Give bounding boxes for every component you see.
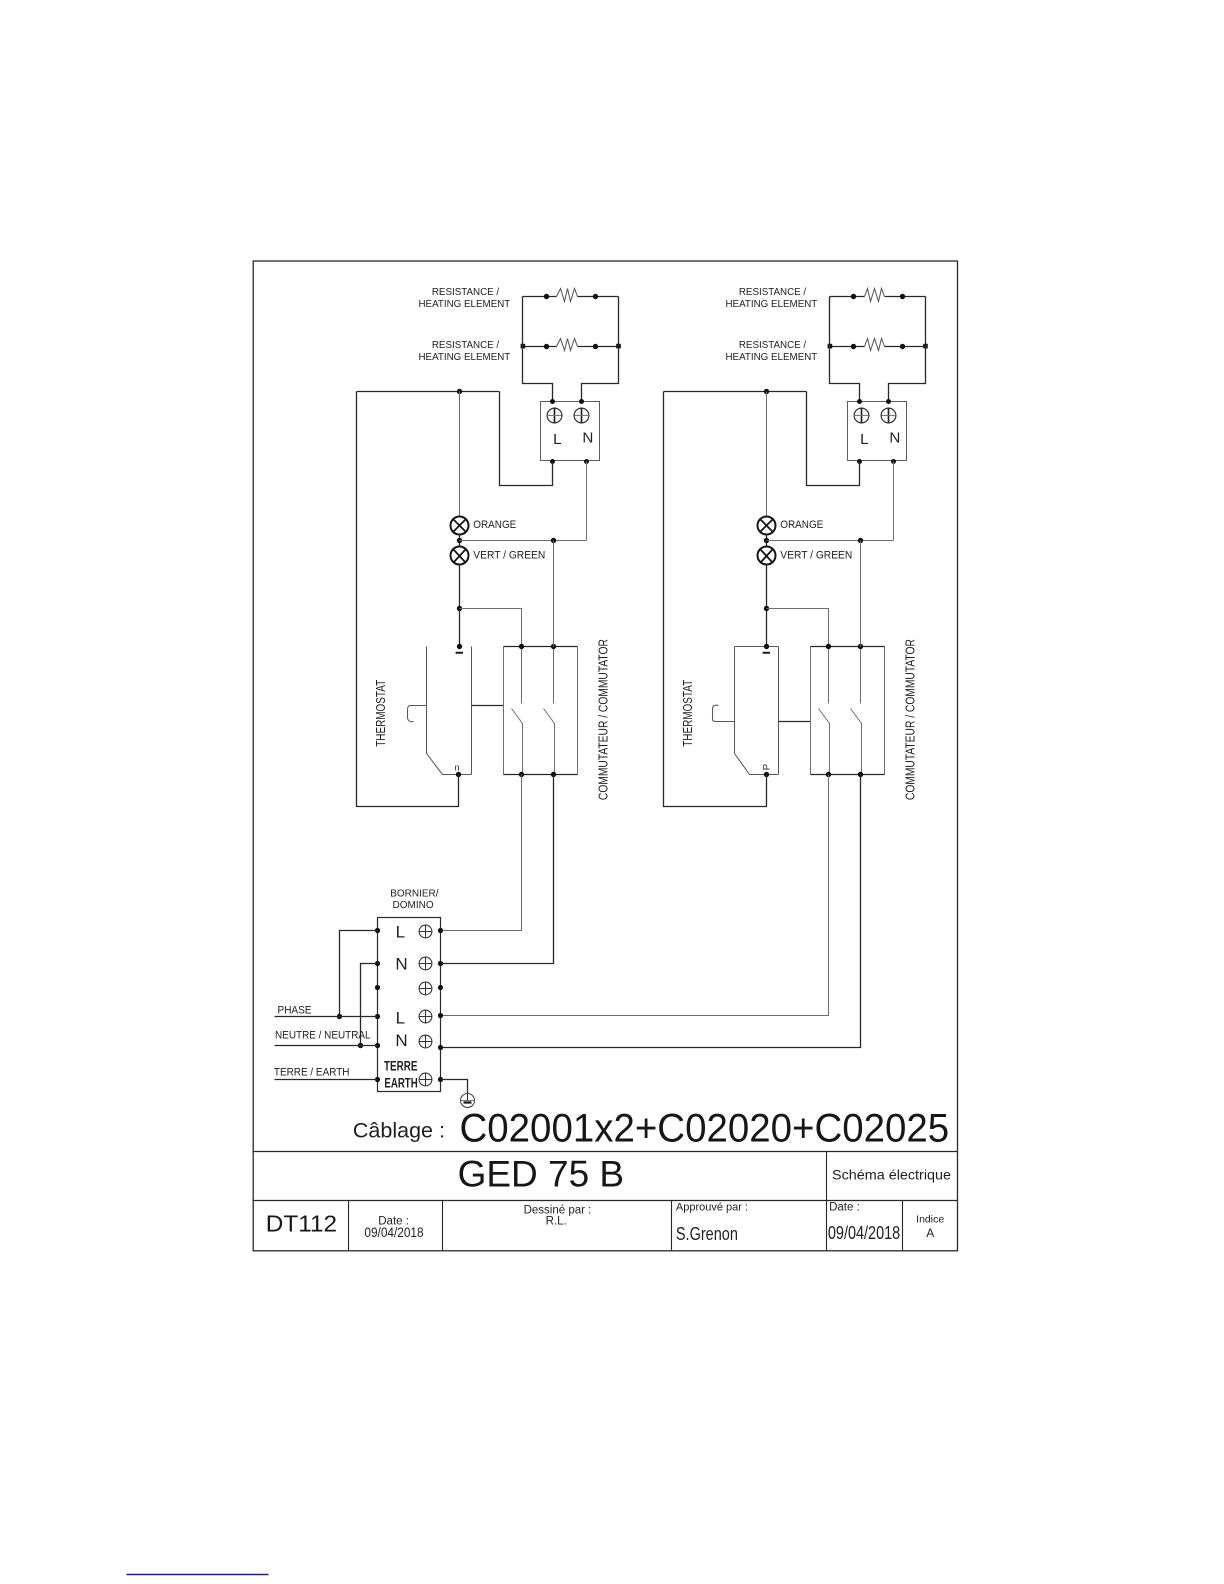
svg-text:PHASE: PHASE xyxy=(278,1005,312,1017)
node: S1 contact 1 top xyxy=(519,644,524,649)
svg-text:HEATING ELEMENT: HEATING ELEMENT xyxy=(725,299,817,310)
svg-text:S.Grenon: S.Grenon xyxy=(676,1224,738,1244)
label: RESISTANCE / HEATING ELEMENT (R1A) xyxy=(418,287,510,310)
node: X3 row 1 left xyxy=(375,928,380,933)
wire: phase rail to X3 row 1 xyxy=(340,931,378,1017)
terminal screw L of X2 xyxy=(854,408,869,423)
label: Date / 09/04/2018 (left) xyxy=(364,1215,423,1240)
wire: between lamps xyxy=(766,535,768,547)
label: RESISTANCE / HEATING ELEMENT (R2A) xyxy=(725,287,817,310)
wire: tap to commutator pole 1 xyxy=(767,609,829,647)
wire: phase rail to lamp H2A xyxy=(766,392,768,517)
footer rule (blue) xyxy=(127,1574,269,1576)
node: phase junction xyxy=(337,1014,342,1019)
wire: neutral rail to X3 row 2 xyxy=(361,964,378,1046)
terminal block X1 (L N) xyxy=(541,402,600,461)
lamp H2B (green indicator) xyxy=(758,547,776,565)
label: pin N (row 2) xyxy=(395,954,407,973)
wire: NEUTRE line xyxy=(275,1045,378,1047)
node: X3 row 2 right xyxy=(438,961,443,966)
label: Approuvé par / S.Grenon xyxy=(676,1201,748,1244)
node: loop left junction (square) xyxy=(521,344,526,349)
label: BORNIER / DOMINO (X3) xyxy=(390,888,439,911)
label: Câblage designation xyxy=(353,1107,949,1151)
wire: resistor parallel loop xyxy=(523,297,619,402)
node: neutral junction xyxy=(358,1043,363,1048)
switch contact 1 of S2 xyxy=(819,647,830,775)
node: commutator feed tap xyxy=(764,606,769,611)
svg-text:VERT / GREEN: VERT / GREEN xyxy=(473,550,545,562)
wire: resistor parallel loop xyxy=(830,297,926,402)
label: pin TERRE EARTH (row 6) xyxy=(384,1059,418,1091)
svg-text:VERT / GREEN: VERT / GREEN xyxy=(780,550,852,562)
wire: thermostat link to commutator xyxy=(779,721,811,723)
terminal screw N of X2 xyxy=(881,408,896,423)
label: pin P of B2 xyxy=(761,764,772,770)
wire: N feed from X2 down xyxy=(893,462,895,541)
wire: top phase rail xyxy=(357,391,500,393)
node: S1 contact 2 bottom xyxy=(551,772,556,777)
label: Date / 09/04/2018 (right) xyxy=(828,1201,900,1243)
terminal strip X3 (bornier/domino) xyxy=(378,918,441,1092)
node: loop right junction (square) xyxy=(616,344,621,349)
wire: S2 pole 2 feed from lamp junction xyxy=(860,541,862,647)
svg-text:HEATING ELEMENT: HEATING ELEMENT xyxy=(418,352,510,363)
node: X2 N bottom xyxy=(891,459,896,464)
node: commutator pole 2 tap xyxy=(551,538,556,543)
svg-text:L: L xyxy=(553,431,561,448)
svg-text:ORANGE: ORANGE xyxy=(780,519,823,531)
wire: L feed from X1 to phase rail xyxy=(500,392,553,486)
resistor R1B heating element xyxy=(523,339,619,351)
node: X3 row 5 left xyxy=(375,1043,380,1048)
svg-text:HEATING ELEMENT: HEATING ELEMENT xyxy=(725,352,817,363)
wire: top phase rail xyxy=(664,391,807,393)
switch contact 2 of S1 xyxy=(544,647,555,775)
node: R1B right lead xyxy=(593,344,598,349)
svg-text:L: L xyxy=(860,431,868,448)
label: GED 75 B xyxy=(458,1154,624,1195)
wire: X3 row 6 to earth xyxy=(441,1080,468,1094)
label: NEUTRE / NEUTRAL xyxy=(275,1029,371,1041)
node: X1 N bottom xyxy=(584,459,589,464)
svg-text:Câblage :: Câblage : xyxy=(353,1119,445,1143)
node: thermostat pin 1 xyxy=(764,644,769,649)
terminal screw L of X1 xyxy=(547,408,562,423)
svg-text:EARTH: EARTH xyxy=(384,1076,417,1091)
label: TERRE / EARTH xyxy=(274,1067,350,1079)
svg-text:DOMINO: DOMINO xyxy=(393,900,434,911)
earth (protective ground) symbol xyxy=(461,1094,475,1108)
node: X2 N top xyxy=(886,399,891,404)
node: R2B left lead xyxy=(851,344,856,349)
label: pin L of X2 xyxy=(860,431,868,448)
wire: between lamps xyxy=(459,535,461,547)
node: S1 contact 2 top xyxy=(551,644,556,649)
svg-text:TERRE / EARTH: TERRE / EARTH xyxy=(274,1067,350,1079)
wire: S1 contact 1 to domino L xyxy=(441,775,522,931)
node: thermostat pin 1 xyxy=(457,644,462,649)
node: R2A right lead xyxy=(900,294,905,299)
svg-text:TERRE: TERRE xyxy=(384,1059,417,1074)
wire: lamp H1B to thermostat xyxy=(459,565,461,647)
thermostat B1 sensor bulb xyxy=(408,706,427,722)
node: X2 L bottom xyxy=(857,459,862,464)
node: S2 contact 2 bottom xyxy=(858,772,863,777)
wire: S1 contact 2 to domino N xyxy=(441,775,554,964)
terminal screw row 5 of X3 xyxy=(419,1035,432,1048)
svg-text:09/04/2018: 09/04/2018 xyxy=(828,1223,900,1243)
svg-text:THERMOSTAT: THERMOSTAT xyxy=(374,680,388,747)
wire: N feed from X1 down xyxy=(586,462,588,541)
node: R1B left lead xyxy=(544,344,549,349)
lamp H2A (orange indicator) xyxy=(758,517,776,535)
label: COMMUTATEUR / COMMUTATOR (S1) xyxy=(596,639,610,800)
label: VERT / GREEN xyxy=(473,550,545,562)
wire: neutral link to commutator pole 2 xyxy=(767,540,894,542)
node: S2 contact 2 top xyxy=(858,644,863,649)
label: pin L (row 4) xyxy=(396,1008,405,1027)
terminal screw row 2 of X3 xyxy=(419,957,432,970)
node: lamp tap on phase rail xyxy=(764,389,769,394)
svg-text:GED 75 B: GED 75 B xyxy=(458,1154,624,1195)
node: X3 row 2 left xyxy=(375,961,380,966)
wire: PHASE line xyxy=(275,1016,378,1018)
label: ORANGE xyxy=(780,519,823,531)
svg-text:COMMUTATEUR / COMMUTATOR: COMMUTATEUR / COMMUTATOR xyxy=(596,639,610,800)
svg-text:ORANGE: ORANGE xyxy=(473,519,516,531)
node: thermostat pin n xyxy=(456,772,461,777)
node: X3 row 4 left xyxy=(375,1014,380,1019)
svg-text:N: N xyxy=(582,429,593,446)
node: loop left junction (square) xyxy=(828,344,833,349)
node: X3 row 6 left xyxy=(375,1077,380,1082)
node: X1 N top xyxy=(579,399,584,404)
node: thermostat pin P xyxy=(764,772,769,777)
svg-text:Schéma électrique: Schéma électrique xyxy=(832,1166,951,1182)
wire: thermostat link to commutator xyxy=(472,705,504,707)
svg-text:A: A xyxy=(926,1226,934,1240)
svg-text:Date :: Date : xyxy=(829,1201,860,1213)
terminal screw row 1 of X3 xyxy=(419,925,432,938)
terminal screw N of X1 xyxy=(574,408,589,423)
node: lamp tap on phase rail xyxy=(457,389,462,394)
label: RESISTANCE / HEATING ELEMENT (R1B) xyxy=(418,340,510,363)
label: DT112 xyxy=(266,1211,337,1237)
node: X3 row 3 left xyxy=(375,985,380,990)
svg-text:N: N xyxy=(889,429,900,446)
svg-text:RESISTANCE /: RESISTANCE / xyxy=(432,287,500,298)
label: pin N (row 5) xyxy=(395,1031,407,1050)
svg-text:THERMOSTAT: THERMOSTAT xyxy=(681,680,695,747)
resistor R2A heating element xyxy=(830,289,926,302)
svg-text:Indice: Indice xyxy=(916,1213,944,1225)
svg-text:L: L xyxy=(396,922,405,941)
terminal screw row 6 of X3 xyxy=(419,1073,432,1086)
svg-text:DT112: DT112 xyxy=(266,1211,337,1237)
node: commutator feed tap xyxy=(457,606,462,611)
label: pin n of B1 xyxy=(454,762,459,772)
thermostat B1 xyxy=(427,647,472,775)
label: PHASE xyxy=(278,1005,312,1017)
node: R1A right lead xyxy=(593,294,598,299)
label: pin N of X1 xyxy=(582,429,593,446)
svg-text:BORNIER/: BORNIER/ xyxy=(390,888,439,899)
label: Schéma électrique xyxy=(832,1166,951,1182)
wire: neutral link to commutator pole 2 xyxy=(460,540,587,542)
terminal screw row 4 of X3 xyxy=(419,1010,432,1023)
thermostat B2 sensor bulb xyxy=(713,705,735,721)
commutator S2 (switch body) xyxy=(811,647,885,775)
lamp H1A (orange indicator) xyxy=(451,517,469,535)
node: S1 contact 1 bottom xyxy=(519,772,524,777)
node: S2 contact 1 top xyxy=(826,644,831,649)
node: X3 row 3 right xyxy=(438,985,443,990)
svg-text:Approuvé par :: Approuvé par : xyxy=(676,1201,748,1213)
svg-text:RESISTANCE /: RESISTANCE / xyxy=(739,287,807,298)
label: THERMOSTAT (B1) xyxy=(374,680,388,747)
wire: tap to commutator pole 1 xyxy=(460,609,522,647)
svg-text:R.L.: R.L. xyxy=(546,1215,567,1227)
svg-text:COMMUTATEUR / COMMUTATOR: COMMUTATEUR / COMMUTATOR xyxy=(903,639,917,800)
commutator S1 (switch body) xyxy=(504,647,578,775)
svg-text:n: n xyxy=(454,762,459,772)
node: X3 row 4 right xyxy=(438,1013,443,1018)
label: VERT / GREEN xyxy=(780,550,852,562)
svg-text:RESISTANCE /: RESISTANCE / xyxy=(739,340,807,351)
svg-text:C02001x2+C02020+C02025: C02001x2+C02020+C02025 xyxy=(460,1107,950,1151)
svg-text:RESISTANCE /: RESISTANCE / xyxy=(432,340,500,351)
node: lamp junction xyxy=(764,538,769,543)
node: R2A left lead xyxy=(851,294,856,299)
svg-text:NEUTRE / NEUTRAL: NEUTRE / NEUTRAL xyxy=(275,1029,371,1041)
svg-text:N: N xyxy=(395,1031,407,1050)
svg-text:HEATING ELEMENT: HEATING ELEMENT xyxy=(418,299,510,310)
node: X3 row 6 right xyxy=(438,1077,443,1082)
node: R1A left lead xyxy=(544,294,549,299)
node: loop right junction (square) xyxy=(923,344,928,349)
label: pin L (row 1) xyxy=(396,922,405,941)
wire: S2 contact 1 to domino L xyxy=(441,775,829,1016)
lamp H1B (green indicator) xyxy=(451,547,469,565)
wire: L feed from X2 to phase rail xyxy=(807,392,860,486)
label: THERMOSTAT (B2) xyxy=(681,680,695,747)
svg-text:09/04/2018: 09/04/2018 xyxy=(364,1225,423,1240)
terminal block X2 (L N) xyxy=(848,402,907,461)
switch contact 2 of S2 xyxy=(851,647,862,775)
node: X2 L top xyxy=(857,399,862,404)
wire: lamp H2B to thermostat xyxy=(766,565,768,647)
label: COMMUTATEUR / COMMUTATOR (S2) xyxy=(903,639,917,800)
wire: return loop (pin n to phase rail) xyxy=(357,392,459,807)
node: X3 row 5 right xyxy=(438,1045,443,1050)
node: X1 L top xyxy=(550,399,555,404)
title block xyxy=(254,1152,958,1251)
label: ORANGE xyxy=(473,519,516,531)
svg-text:P: P xyxy=(761,764,772,770)
wire: phase rail to lamp H1A xyxy=(459,392,461,517)
terminal screw row 3 of X3 xyxy=(419,982,432,995)
node: X1 L bottom xyxy=(550,459,555,464)
svg-text:N: N xyxy=(395,954,407,973)
thermostat B2 xyxy=(735,647,779,775)
wire: S2 contact 2 to domino N xyxy=(441,775,861,1048)
label: pin L of X1 xyxy=(553,431,561,448)
label: pin 1 of B2 xyxy=(763,652,770,654)
node: lamp junction xyxy=(457,538,462,543)
switch contact 1 of S1 xyxy=(512,647,523,775)
svg-text:L: L xyxy=(396,1008,405,1027)
label: RESISTANCE / HEATING ELEMENT (R2B) xyxy=(725,340,817,363)
wire: return loop (pin P to phase rail) xyxy=(664,392,767,807)
resistor R1A heating element xyxy=(523,289,619,302)
node: commutator pole 2 tap xyxy=(858,538,863,543)
node: R2B right lead xyxy=(900,344,905,349)
wire: S1 pole 2 feed from lamp junction xyxy=(553,541,555,647)
label: pin N of X2 xyxy=(889,429,900,446)
node: S2 contact 1 bottom xyxy=(826,772,831,777)
label: pin 1 of B1 xyxy=(456,652,463,654)
label: Dessiné par / R.L. xyxy=(524,1204,592,1227)
wire: TERRE line xyxy=(275,1079,378,1081)
node: X3 row 1 right xyxy=(438,928,443,933)
label: Indice A xyxy=(916,1213,944,1240)
resistor R2B heating element xyxy=(830,339,926,351)
